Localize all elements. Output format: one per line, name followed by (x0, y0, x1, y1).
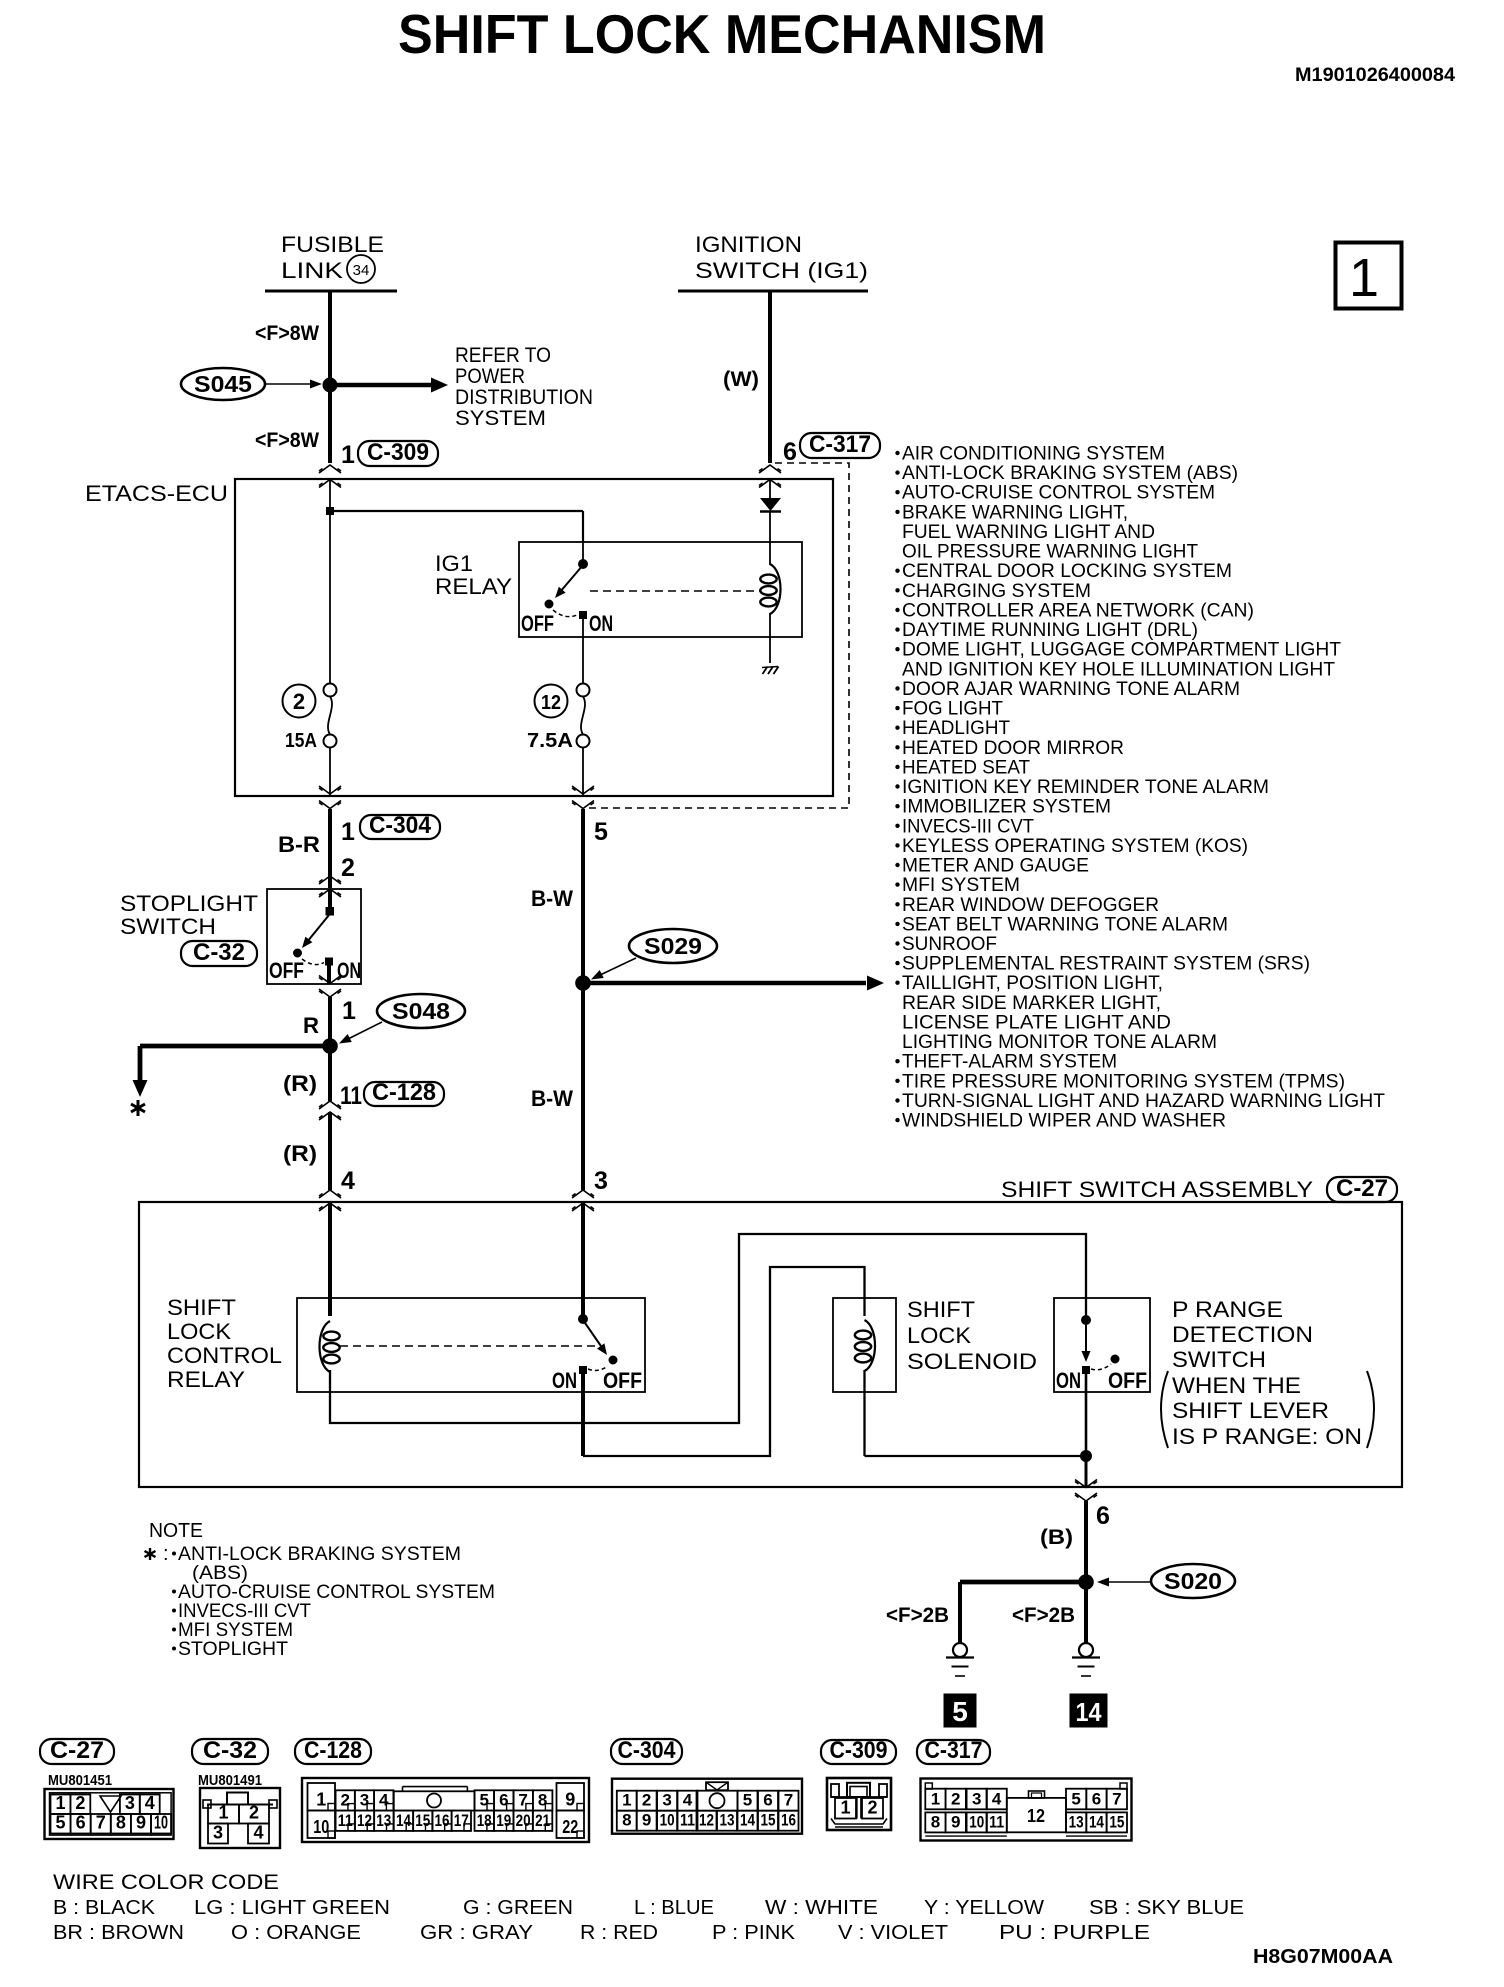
svg-text:L : BLUE: L : BLUE (634, 1897, 714, 1919)
document number M1901026400084 (1295, 65, 1455, 86)
relay K1 switch arm (583, 1320, 611, 1358)
connected systems list (895, 443, 1385, 1132)
svg-text:14: 14 (1076, 1697, 1102, 1727)
svg-text:6: 6 (1096, 1502, 1110, 1530)
ECU pin 5 exit chevrons (572, 786, 594, 809)
switch S1 condition note (WHEN THE SHIFT LEVER IS P RANGE: ON) (1161, 1371, 1374, 1449)
wire coil to ground (769, 613, 771, 663)
svg-text:C-27: C-27 (50, 1737, 104, 1764)
wire label (W) (723, 368, 759, 391)
connector C-27 pin6 chevrons (1075, 1480, 1097, 1502)
svg-text:C-309: C-309 (367, 439, 429, 466)
svg-text:TIRE PRESSURE MONITORING SYSTE: TIRE PRESSURE MONITORING SYSTEM (TPMS) (902, 1070, 1345, 1092)
svg-text:9: 9 (565, 1790, 575, 1810)
stoplight switch ON contact (326, 958, 333, 965)
svg-text:DOOR AJAR WARNING TONE ALARM: DOOR AJAR WARNING TONE ALARM (902, 678, 1240, 700)
svg-text:7.5A: 7.5A (527, 730, 573, 752)
svg-text:LOCK: LOCK (907, 1323, 971, 1348)
svg-text:1: 1 (342, 997, 356, 1025)
svg-text:6: 6 (763, 1791, 772, 1810)
svg-text:2: 2 (341, 854, 355, 882)
svg-text:BR : BROWN: BR : BROWN (53, 1922, 184, 1944)
svg-text:14: 14 (740, 1811, 755, 1830)
svg-text:1: 1 (316, 1790, 326, 1810)
relay IG1 OFF contact (545, 600, 553, 608)
pin 3 of C-27 (594, 1167, 608, 1195)
svg-text:5: 5 (743, 1791, 752, 1810)
svg-text:8: 8 (931, 1812, 940, 1831)
pin 4 of C-27 (341, 1167, 355, 1195)
svg-text:17: 17 (454, 1811, 469, 1830)
svg-text:B-R: B-R (278, 832, 320, 857)
pin 11 of C-128 (340, 1082, 362, 1110)
svg-text:ETACS-ECU: ETACS-ECU (85, 481, 228, 506)
svg-text:7: 7 (784, 1791, 793, 1810)
junction node solenoid/P-range (1081, 1451, 1092, 1462)
switch S1 OFF text (1108, 1368, 1147, 1393)
wire left rail inside ECU (329, 480, 331, 684)
svg-text:(R): (R) (283, 1071, 317, 1096)
switch S1 ON text (1056, 1368, 1081, 1393)
pin 6 of C-317 (783, 438, 797, 466)
svg-text:11: 11 (338, 1811, 353, 1830)
wire label <F>2B right (1012, 1604, 1075, 1627)
svg-text:DISTRIBUTION: DISTRIBUTION (455, 386, 593, 409)
wire fusible link feed (8W) (328, 291, 332, 463)
relay K1 box (297, 1298, 645, 1392)
ETACS-ECU box (235, 479, 833, 796)
svg-text:3: 3 (594, 1167, 608, 1195)
svg-text:SHIFT: SHIFT (907, 1297, 975, 1322)
svg-text:V : VIOLET: V : VIOLET (838, 1922, 948, 1944)
svg-text:2: 2 (249, 1803, 259, 1823)
svg-text:WHEN THE: WHEN THE (1172, 1373, 1301, 1398)
fuse F2 symbol (324, 684, 337, 748)
fusible link number circle 34 (347, 255, 375, 283)
svg-text:PU : PURPLE: PU : PURPLE (999, 1922, 1150, 1944)
pin 5 label (594, 818, 608, 846)
power source FUSIBLE LINK label (281, 232, 384, 283)
svg-text:TAILLIGHT, POSITION LIGHT,: TAILLIGHT, POSITION LIGHT, (902, 972, 1163, 994)
note asterisk symbol (131, 1100, 145, 1116)
wire (R) to C-128 (328, 1046, 332, 1101)
wire relay IG1 output (582, 618, 584, 684)
pin 2 of C-304 (341, 854, 355, 882)
svg-text:1: 1 (55, 1793, 65, 1813)
svg-text:21: 21 (535, 1811, 550, 1830)
svg-text:SWITCH (IG1): SWITCH (IG1) (695, 258, 868, 283)
fuse F2 rating 15A (285, 730, 317, 752)
svg-text:P : PINK: P : PINK (712, 1922, 796, 1944)
relay IG1 coil (760, 564, 780, 614)
svg-text:3: 3 (972, 1789, 981, 1808)
svg-text:R : RED: R : RED (580, 1922, 658, 1944)
relay IG1 contact dashed arc (553, 610, 577, 617)
svg-text:12: 12 (699, 1811, 714, 1830)
svg-text:<F>8W: <F>8W (255, 322, 319, 345)
svg-text:S048: S048 (392, 998, 450, 1024)
wire diode to relay coil (769, 512, 771, 565)
wire ground branch (960, 1582, 1086, 1643)
junction node S029 (576, 976, 591, 991)
wire solenoid return (865, 1370, 1087, 1456)
relay K1 SHIFT LOCK CONTROL RELAY label (167, 1295, 282, 1392)
svg-text:15: 15 (761, 1811, 776, 1830)
svg-text:10: 10 (969, 1812, 984, 1831)
svg-text:REFER TO: REFER TO (455, 344, 551, 367)
wire (R) to shift assembly (328, 1112, 332, 1190)
sheet number box 1 (1336, 243, 1402, 309)
svg-text:8: 8 (116, 1813, 126, 1833)
wire branch to IG1 relay switch (330, 511, 583, 543)
svg-text:SHIFT LEVER: SHIFT LEVER (1172, 1398, 1329, 1423)
ETACS-ECU dashed extension box (585, 463, 849, 808)
svg-text:G : GREEN: G : GREEN (463, 1897, 573, 1919)
svg-text:B : BLACK: B : BLACK (53, 1897, 156, 1919)
svg-text:H8G07M00AA: H8G07M00AA (1253, 1946, 1393, 1968)
svg-text:1: 1 (341, 441, 355, 469)
connector C-309 label (358, 439, 438, 466)
fuse F12 symbol (577, 684, 590, 748)
diode D1 (in ECU) (760, 480, 781, 512)
svg-text:SHIFT LOCK MECHANISM: SHIFT LOCK MECHANISM (398, 3, 1046, 65)
splice S045 (181, 368, 265, 400)
connector C-304 pinout (611, 1737, 802, 1834)
svg-text:B-W: B-W (531, 886, 573, 911)
relay K1 dashed arc (588, 1366, 608, 1370)
svg-text:2: 2 (642, 1791, 651, 1810)
wire label <F>8W upper (255, 322, 319, 345)
thick wire to other systems (note *) (133, 1046, 331, 1097)
splice S020 (1151, 1564, 1235, 1598)
svg-text:(B): (B) (1040, 1526, 1073, 1549)
svg-text:8: 8 (622, 1811, 631, 1830)
svg-text:C-27: C-27 (1336, 1175, 1388, 1202)
connector C-27 pinout (40, 1737, 174, 1839)
splice S029 (629, 929, 717, 963)
svg-text:FUSIBLE: FUSIBLE (281, 232, 384, 257)
svg-text:15: 15 (1109, 1812, 1124, 1831)
svg-text:MU801491: MU801491 (198, 1772, 262, 1789)
relay IG1 ON text (589, 611, 613, 636)
wire B-W lower (581, 983, 585, 1190)
relay IG1 ON contact (580, 612, 587, 619)
relay K1 dashed link (340, 1345, 600, 1347)
svg-text:3: 3 (125, 1793, 135, 1813)
svg-text:14: 14 (396, 1811, 411, 1830)
stoplight switch OFF text (269, 958, 304, 983)
power source IGNITION SWITCH (IG1) label (695, 232, 868, 283)
svg-text:STOPLIGHT: STOPLIGHT (178, 1638, 288, 1660)
switch S1 P RANGE DETECTION box (1054, 1298, 1150, 1392)
wire label B-W lower (531, 1086, 573, 1111)
svg-text:AUTO-CRUISE CONTROL SYSTEM: AUTO-CRUISE CONTROL SYSTEM (902, 482, 1215, 504)
svg-text:OFF: OFF (603, 1368, 642, 1393)
fuse F12 circled number 12 (535, 685, 568, 718)
wire (B) to S020 (1084, 1501, 1088, 1582)
svg-text:18: 18 (477, 1811, 492, 1830)
svg-text:4: 4 (145, 1793, 155, 1813)
svg-text:C-317: C-317 (809, 431, 871, 458)
svg-text:13: 13 (1069, 1812, 1084, 1831)
svg-text:ON: ON (589, 611, 613, 636)
svg-text:C-32: C-32 (193, 939, 245, 966)
svg-text:<F>8W: <F>8W (255, 429, 319, 452)
svg-text:LG : LIGHT GREEN: LG : LIGHT GREEN (194, 1897, 390, 1919)
svg-text:16: 16 (435, 1811, 450, 1830)
junction node branch to IG1 relay (327, 508, 334, 515)
svg-text:9: 9 (136, 1813, 146, 1833)
svg-text:12: 12 (357, 1811, 372, 1830)
svg-text:S020: S020 (1164, 1568, 1222, 1594)
solenoid L1 coil (855, 1320, 875, 1371)
svg-text:11: 11 (680, 1811, 695, 1830)
ignition switch terminal bar (678, 290, 868, 293)
svg-text:OFF: OFF (1108, 1368, 1147, 1393)
svg-text:4: 4 (379, 1791, 389, 1810)
wire label (R) lower (283, 1141, 317, 1166)
svg-text:RELAY: RELAY (167, 1367, 245, 1392)
svg-text:1: 1 (341, 818, 355, 846)
svg-text:C-304: C-304 (618, 1737, 677, 1764)
svg-text:6: 6 (783, 438, 797, 466)
svg-text:SOLENOID: SOLENOID (907, 1349, 1037, 1374)
svg-text:SB : SKY BLUE: SB : SKY BLUE (1089, 1897, 1244, 1919)
svg-text:SHIFT SWITCH ASSEMBLY: SHIFT SWITCH ASSEMBLY (1001, 1177, 1313, 1202)
svg-text::: : (163, 1543, 169, 1565)
svg-text:2: 2 (951, 1789, 960, 1808)
shift switch assembly box (139, 1202, 1402, 1487)
connector C-128 label (364, 1079, 444, 1106)
relay IG1 dashed link (590, 590, 760, 592)
relay IG1 OFF text (521, 611, 554, 636)
svg-text:7: 7 (96, 1813, 106, 1833)
arrow S020 to junction (1097, 1578, 1151, 1587)
svg-text:10: 10 (660, 1811, 675, 1830)
svg-text:P RANGE: P RANGE (1172, 1297, 1283, 1322)
svg-text:22: 22 (562, 1817, 578, 1837)
svg-text:OFF: OFF (521, 611, 554, 636)
connector C-27 chevrons left (319, 1190, 341, 1211)
svg-text:C-32: C-32 (203, 1737, 257, 1764)
svg-text:ON: ON (337, 958, 361, 983)
svg-text:Y : YELLOW: Y : YELLOW (924, 1897, 1044, 1919)
svg-text:NOTE: NOTE (149, 1520, 203, 1542)
switch S1 OFF contact (1111, 1355, 1119, 1363)
svg-text:9: 9 (951, 1812, 960, 1831)
svg-text:5: 5 (952, 1696, 968, 1727)
svg-text:6: 6 (1092, 1789, 1101, 1808)
fuse F2 circled number 2 (283, 685, 316, 718)
wire fuse F2 to ECU bottom (329, 748, 331, 796)
svg-text:16: 16 (781, 1811, 796, 1830)
svg-text:<F>2B: <F>2B (886, 1604, 949, 1627)
wire color code legend (53, 1871, 1244, 1944)
switch S1 pivot (1082, 1316, 1091, 1325)
svg-text:<F>2B: <F>2B (1012, 1604, 1075, 1627)
svg-text:5: 5 (594, 818, 608, 846)
svg-text:4: 4 (253, 1823, 263, 1843)
svg-text:ON: ON (552, 1368, 577, 1393)
svg-text:M1901026400084: M1901026400084 (1295, 65, 1455, 86)
connector C-128 inline chevrons (319, 1101, 341, 1120)
svg-text:4: 4 (992, 1789, 1002, 1808)
note REFER TO POWER DISTRIBUTION SYSTEM (455, 344, 593, 430)
svg-text:DETECTION: DETECTION (1172, 1322, 1313, 1347)
connector C-304 chevrons (ECU side) (319, 786, 341, 809)
connector C-317 chevrons (759, 465, 781, 488)
SHIFT SWITCH ASSEMBLY label (1001, 1177, 1313, 1202)
arrow S029 to junction (589, 958, 636, 984)
relay K1 switch pivot (579, 1315, 588, 1324)
splice S048 (377, 994, 465, 1028)
svg-text:GR : GRAY: GR : GRAY (420, 1922, 533, 1944)
connector C-304 label (360, 812, 440, 839)
stoplight switch dashed arc (302, 959, 324, 965)
wire S1 output to junction (1085, 1373, 1088, 1456)
ground designator 14 (1070, 1694, 1107, 1727)
connector C-32 pinout (192, 1737, 280, 1848)
svg-text:3: 3 (662, 1791, 671, 1810)
svg-text:OFF: OFF (269, 958, 304, 983)
svg-text:9: 9 (642, 1811, 651, 1830)
connector C-27 chevrons right (572, 1190, 594, 1211)
pin 1 label (stoplight out) (342, 997, 356, 1025)
svg-text:19: 19 (496, 1811, 511, 1830)
wire fuse F12 to ECU bottom (582, 748, 584, 796)
wire label <F>2B left (886, 1604, 949, 1627)
switch S1 ON contact (1083, 1367, 1090, 1374)
svg-text:C-128: C-128 (372, 1079, 436, 1106)
stoplight switch OFF contact (294, 949, 302, 957)
svg-text:12: 12 (541, 692, 561, 714)
connector C-317 pinout (917, 1737, 1132, 1841)
svg-text:1: 1 (1349, 248, 1379, 308)
svg-text:C-317: C-317 (925, 1737, 983, 1764)
svg-text:SHIFT: SHIFT (167, 1295, 236, 1320)
fusible link terminal bar (265, 290, 397, 293)
svg-text:3: 3 (213, 1823, 223, 1843)
connector C-309 chevrons (319, 465, 341, 488)
svg-text:34: 34 (353, 262, 370, 279)
svg-text:11: 11 (989, 1812, 1004, 1831)
svg-text:1: 1 (218, 1803, 228, 1823)
note block (145, 1520, 496, 1660)
svg-text:C-309: C-309 (830, 1737, 888, 1764)
svg-text:SYSTEM: SYSTEM (455, 407, 546, 430)
connector C-128 pinout (295, 1737, 589, 1842)
wire pin4 into relay coil (328, 1203, 332, 1316)
wire label B-R (278, 832, 320, 857)
stoplight switch box (267, 889, 361, 984)
stoplight switch arm (299, 915, 329, 951)
svg-text:20: 20 (516, 1811, 531, 1830)
svg-text:MFI SYSTEM: MFI SYSTEM (902, 874, 1020, 896)
relay K1 ON text (552, 1368, 577, 1393)
solenoid L1 SHIFT LOCK SOLENOID label (907, 1297, 1037, 1374)
title SHIFT LOCK MECHANISM (398, 3, 1046, 65)
junction node S048 (323, 1039, 338, 1054)
wire relay ON contact run (583, 1267, 865, 1456)
svg-text:15A: 15A (285, 730, 317, 752)
svg-text:LINK: LINK (281, 258, 343, 283)
svg-text:6: 6 (76, 1813, 86, 1833)
wire assembly output pin 6 (1085, 1456, 1088, 1487)
svg-text:12: 12 (1027, 1806, 1045, 1826)
wire B-W upper (581, 809, 585, 983)
wire right ground drop (1084, 1589, 1088, 1643)
svg-text:RELAY: RELAY (435, 574, 512, 599)
connector C-304 chevrons (switch side) (319, 876, 341, 897)
svg-text:10: 10 (154, 1813, 168, 1833)
svg-text:4: 4 (341, 1167, 355, 1195)
switch STOPLIGHT SWITCH label (120, 891, 258, 939)
wire label (B) (1040, 1526, 1073, 1549)
ground body earth right (1072, 1643, 1100, 1676)
switch S1 arm (closed to ON) (1082, 1324, 1091, 1362)
solenoid L1 box (833, 1298, 896, 1392)
wire label (R) upper (283, 1071, 317, 1096)
junction node S045 on feed wire (323, 378, 337, 392)
svg-text:14: 14 (1089, 1812, 1104, 1831)
svg-text:(R): (R) (283, 1141, 317, 1166)
pin 1 of C-304 (341, 818, 355, 846)
connector C-32 label (at switch) (181, 939, 257, 966)
thick arrow to power distribution (330, 378, 448, 393)
relay K1 coil (320, 1321, 340, 1372)
stoplight switch input wire (328, 889, 332, 908)
pin 6 label (1096, 1502, 1110, 1530)
svg-text:2: 2 (867, 1798, 877, 1818)
svg-text:LOCK: LOCK (167, 1319, 231, 1344)
svg-text:1: 1 (840, 1798, 850, 1818)
relay K1 OFF contact (609, 1356, 617, 1364)
relay IG1 switch pivot (579, 543, 588, 569)
svg-text:S045: S045 (194, 371, 252, 397)
stoplight switch output chevrons (319, 976, 341, 998)
ETACS-ECU label (85, 481, 228, 506)
svg-text:SWITCH: SWITCH (1172, 1347, 1266, 1372)
arrow S045 to junction (266, 380, 322, 389)
stoplight switch ON text (337, 958, 361, 983)
wire relay coil return run (330, 1234, 1086, 1423)
ground chassis (IG1 relay coil) (762, 667, 779, 675)
svg-text:7: 7 (1112, 1789, 1121, 1808)
wire B-R to stoplight switch (328, 809, 332, 888)
svg-text:S029: S029 (644, 933, 702, 959)
svg-text:C-128: C-128 (304, 1737, 362, 1764)
ground designator 5 (944, 1694, 976, 1727)
svg-text:4: 4 (683, 1791, 693, 1810)
svg-text:1: 1 (622, 1791, 631, 1810)
svg-text:R: R (303, 1013, 319, 1038)
svg-text:2: 2 (75, 1793, 85, 1813)
switch S1 P RANGE DETECTION SWITCH label (1172, 1297, 1313, 1372)
arrow S048 to junction (337, 1022, 382, 1048)
svg-text:C-304: C-304 (369, 812, 432, 839)
svg-text:IG1: IG1 (435, 551, 473, 576)
relay K1 OFF text (603, 1368, 642, 1393)
stoplight switch pivot contact (326, 908, 334, 916)
svg-text:13: 13 (376, 1811, 391, 1830)
svg-text:15: 15 (415, 1811, 430, 1830)
switch S1 dashed arc (1091, 1364, 1111, 1370)
wire pin3 into relay switch (581, 1203, 585, 1319)
fuse F12 rating 7.5A (527, 730, 573, 752)
wire ignition feed (W) (768, 291, 772, 463)
svg-text:5: 5 (56, 1813, 66, 1833)
connector C-317 label (800, 431, 880, 458)
